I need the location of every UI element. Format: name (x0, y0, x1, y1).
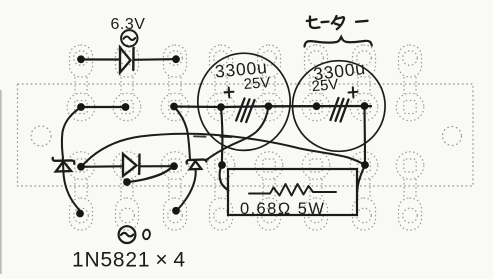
wire D1 to lug1-bottom (63, 158, 80, 211)
wire lug7 vertical (363, 106, 366, 164)
node lug8-up (396, 45, 424, 121)
wire (81, 106, 126, 108)
diode D2 left vertical schottky (53, 158, 75, 172)
node lug5-up (255, 45, 283, 121)
node junction lug2-rowA (122, 103, 130, 111)
svg-text:25V: 25V (311, 76, 339, 95)
node junction lug1-rowA (77, 103, 85, 111)
node lug8-down (396, 152, 424, 230)
node junction lug6-rowA (313, 102, 321, 110)
node label heater (katakana) (307, 16, 368, 29)
svg-text:25V: 25V (243, 74, 271, 93)
node lug6-down (302, 152, 330, 230)
wire dashed-centerline (194, 135, 232, 138)
node lug1-down (67, 152, 95, 230)
node junction lug3-rowA (170, 103, 178, 111)
node lug4-down (207, 152, 235, 230)
node mounting-hole-right (443, 127, 462, 146)
node lug7-up (350, 45, 378, 121)
node lug7-down (350, 152, 378, 230)
node label 0 (143, 229, 151, 239)
wire rowB left (81, 165, 122, 168)
node junction lug3-head-top (172, 55, 180, 63)
svg-text:6.3V: 6.3V (111, 16, 146, 33)
node lug6-up (302, 45, 330, 121)
svg-text:1N5821 × 4: 1N5821 × 4 (72, 249, 186, 272)
diode D3 middle horizontal (123, 154, 140, 176)
node lug5-down (255, 152, 283, 230)
wire (0, 90, 2, 274)
wire (134, 58, 172, 61)
node junction lug7-rowB (361, 161, 369, 169)
node junction lug5-rowA (265, 102, 273, 110)
node junction lug1-head-bottom (76, 210, 84, 218)
node lug2-down (113, 152, 141, 230)
AC source 6.3V top (121, 30, 137, 46)
node junction lug2-shank (123, 178, 131, 186)
wire lug3 to D4 (174, 107, 190, 160)
capacitor C2 3300u 25V (293, 58, 386, 151)
node lug3-up (161, 45, 189, 121)
node junction lug1-head-top (77, 55, 85, 63)
wire D4 to lug3-bottom (177, 170, 196, 211)
node junction lug4-rowA (217, 103, 225, 111)
node junction lug1-rowB (77, 163, 85, 171)
node board-outline (18, 84, 474, 186)
node brace heater terminals (305, 37, 372, 47)
wire lug5 to D4 (206, 106, 269, 160)
node lug2-up (113, 45, 141, 121)
node mounting-hole-left (31, 126, 51, 146)
capacitor C1 3300u 25V (198, 53, 290, 150)
svg-text:0,68Ω 5W: 0,68Ω 5W (240, 200, 325, 218)
wire (85, 58, 119, 60)
diode D4 right vertical schottky (187, 160, 207, 170)
node junction lug4-rowB (218, 161, 226, 169)
wire lug7 to box (357, 165, 365, 190)
node lug4-up (207, 45, 235, 121)
AC source 0 bottom (119, 226, 136, 243)
resistor R1 0.68ohm 5W box (228, 169, 357, 218)
wire lug4 to box (220, 165, 229, 191)
node lug1-up (67, 45, 95, 121)
node junction lug3-head-bottom (172, 207, 180, 215)
diode D1 top (between lug1 and lug3 heads) (120, 48, 134, 73)
wire bus rowA (174, 106, 371, 107)
node junction lug3-rowB (170, 162, 178, 170)
node junction lug7-rowA (361, 102, 369, 110)
wire lug4 vertical (221, 107, 222, 164)
wire lug1 to D1 (62, 107, 81, 158)
node lug3-down (161, 152, 189, 230)
wire rowB right (140, 165, 174, 167)
wire long arc (81, 134, 365, 167)
wire lug2neck to lug3 (127, 167, 173, 183)
